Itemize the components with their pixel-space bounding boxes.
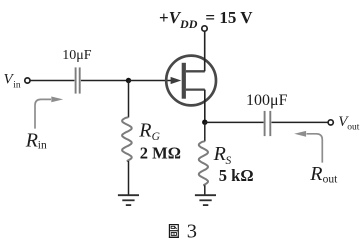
svg-text:100μF: 100μF	[246, 92, 288, 109]
wire gate node to RG	[128, 81, 130, 118]
wire source to output node	[204, 90, 206, 123]
wire RS to ground	[204, 185, 206, 195]
svg-text:out: out	[347, 123, 360, 133]
wire RG to ground	[128, 161, 130, 195]
svg-text:5 kΩ: 5 kΩ	[219, 166, 254, 185]
resistor RG	[122, 117, 132, 161]
resistor RS	[199, 141, 208, 185]
wire Vin to C1	[30, 80, 74, 82]
node gate junction	[126, 78, 131, 83]
svg-text:in: in	[38, 140, 47, 152]
arrow Rin pointer	[35, 99, 51, 128]
JFET Q1 body circle	[166, 56, 216, 106]
capacitor C2 plates	[264, 111, 266, 136]
wire C1 to gate node	[81, 80, 129, 82]
svg-text:R: R	[309, 163, 322, 185]
JFET Q1 gate arrowhead	[171, 77, 182, 84]
JFET Q1 channel bar	[182, 63, 186, 99]
svg-text:= 15 V: = 15 V	[205, 8, 253, 27]
wire drain to VDD terminal	[204, 31, 206, 71]
arrow Rout pointer	[307, 134, 323, 163]
wire C2 to Vout	[272, 121, 328, 123]
svg-text:2 MΩ: 2 MΩ	[140, 144, 181, 163]
svg-text:3: 3	[187, 220, 197, 242]
svg-text:10μF: 10μF	[62, 48, 92, 63]
caption figure glyph	[169, 225, 179, 238]
svg-text:G: G	[152, 131, 161, 143]
svg-text:+VDD: +VDD	[159, 8, 198, 31]
svg-text:out: out	[323, 174, 339, 186]
JFET Q1 drain lead	[186, 70, 205, 72]
svg-text:R: R	[213, 143, 226, 165]
ground GND1	[118, 195, 139, 205]
output terminal Vout	[328, 120, 333, 125]
wire source node to RS	[204, 122, 206, 141]
svg-text:R: R	[138, 119, 151, 141]
svg-text:R: R	[25, 129, 38, 151]
VDD terminal	[202, 26, 207, 31]
wire gate node to JFET gate	[129, 80, 173, 82]
capacitor C1 plates	[75, 67, 77, 93]
svg-text:in: in	[13, 81, 21, 91]
node source junction	[202, 120, 207, 125]
JFET Q1 source lead	[186, 88, 205, 90]
wire source node to C2	[205, 121, 264, 123]
input terminal Vin	[25, 78, 30, 83]
ground GND2	[195, 195, 216, 205]
